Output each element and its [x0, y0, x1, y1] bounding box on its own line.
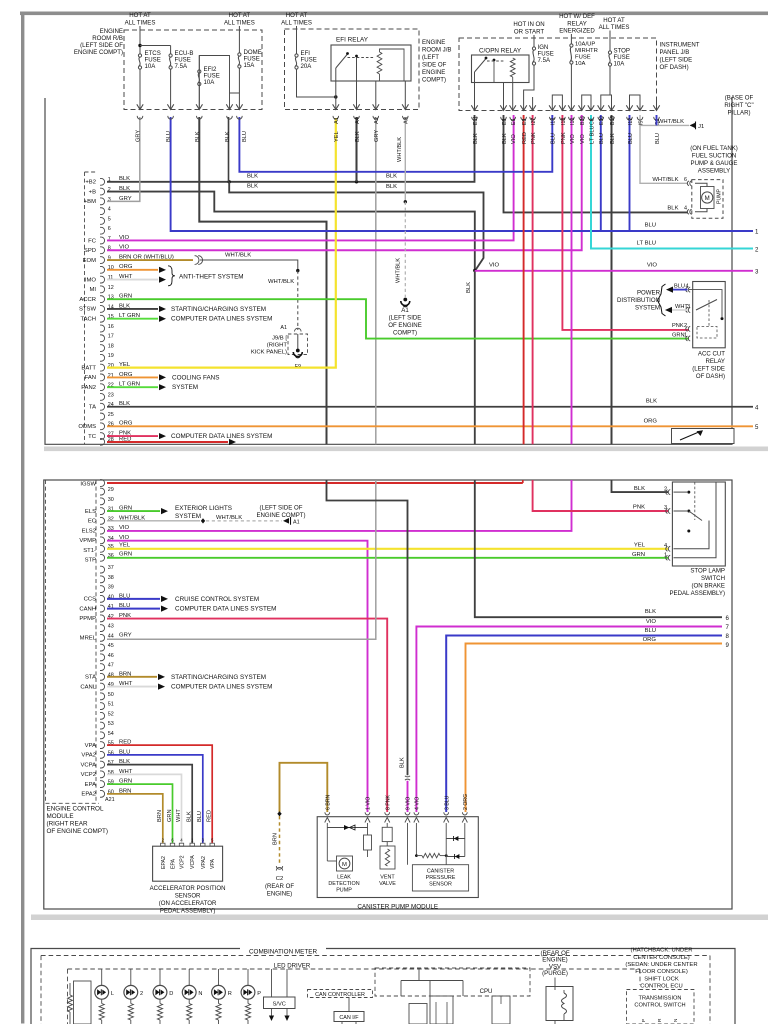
section separator band 2 — [31, 915, 768, 921]
LED indicator R — [218, 969, 220, 986]
svg-text:ENGINE): ENGINE) — [267, 891, 292, 898]
svg-text:ENGINE: ENGINE — [422, 69, 445, 76]
wire BLK pin14 STSW — [107, 308, 158, 310]
svg-text:CRUISE CONTROL SYSTEM: CRUISE CONTROL SYSTEM — [175, 596, 259, 603]
ECM pin 4 — [100, 208, 105, 215]
connector A1 arrow pin32 — [283, 518, 289, 524]
ECM pin 48 — [100, 673, 105, 680]
svg-text:ALL TIMES: ALL TIMES — [281, 19, 312, 26]
ACC cut relay box — [693, 282, 726, 348]
pump pin6 connector — [687, 181, 689, 186]
svg-text:C8: C8 — [589, 118, 595, 125]
canister module pin 4 VIO — [414, 812, 419, 815]
svg-text:ALL TIMES: ALL TIMES — [125, 19, 156, 26]
svg-text:BLK: BLK — [502, 133, 508, 144]
svg-text:EC: EC — [88, 519, 97, 525]
svg-text:20A: 20A — [301, 63, 313, 70]
svg-text:37: 37 — [108, 565, 114, 571]
svg-text:PPMP: PPMP — [79, 616, 96, 622]
svg-text:YEL: YEL — [119, 542, 131, 548]
svg-text:D: D — [169, 991, 173, 997]
sensor pin bump BRN — [161, 843, 165, 846]
svg-text:TRANSMISSION: TRANSMISSION — [639, 996, 682, 1002]
ECM pin 1 — [100, 178, 105, 185]
combination meter dashed box — [41, 955, 710, 957]
svg-text:CANISTER: CANISTER — [427, 868, 454, 874]
EFI relay internals — [335, 68, 337, 81]
wire BLU ECU-B fuse to edge 1 — [171, 117, 753, 231]
svg-text:PNK: PNK — [561, 132, 567, 144]
ground E9 inside J9/B — [296, 349, 300, 353]
svg-text:ORG: ORG — [643, 637, 657, 643]
ECM pin 49 — [100, 683, 105, 690]
svg-text:M: M — [705, 195, 710, 202]
svg-text:51: 51 — [108, 702, 114, 708]
svg-text:PNK: PNK — [633, 505, 645, 511]
svg-text:B26: B26 — [580, 116, 586, 125]
svg-text:WHT/BLK: WHT/BLK — [652, 177, 678, 183]
LED driver dashed box — [68, 968, 641, 970]
svg-text:(ON FUEL TANK): (ON FUEL TANK) — [690, 145, 738, 152]
svg-text:BLU: BLU — [674, 284, 685, 290]
svg-text:+BM: +BM — [84, 199, 96, 205]
svg-text:SIDE OF: SIDE OF — [422, 62, 447, 69]
svg-text:50: 50 — [108, 692, 114, 698]
CAN controller dashed box — [308, 990, 373, 998]
ECM pin 25 — [100, 413, 105, 420]
arrow power distribution 1 — [666, 287, 673, 293]
feed line EFI fuse — [296, 26, 298, 54]
svg-text:GRN: GRN — [119, 551, 132, 557]
wire WHT/BLK J/B to pump pin6 — [640, 115, 688, 183]
svg-text:M: M — [342, 862, 347, 868]
arrow pin28 red — [229, 439, 236, 445]
svg-text:VIO: VIO — [570, 134, 576, 144]
wire GRY EFI relay A2 down to section2 — [375, 117, 377, 444]
ECM pin IGSW — [100, 480, 105, 487]
svg-text:VIO: VIO — [511, 134, 517, 144]
svg-text:BLK: BLK — [225, 131, 231, 142]
svg-text:ENERGIZED: ENERGIZED — [559, 28, 595, 35]
instrument panel J/B dashed box — [459, 38, 657, 111]
J/B pin exit 629.5 — [626, 105, 632, 110]
brace power distribution — [658, 284, 666, 316]
J/B pin stub — [532, 97, 534, 111]
wire RED pin55 to accel sensor — [107, 745, 212, 843]
svg-text:23: 23 — [108, 392, 114, 398]
wire BLK to edge 6 — [475, 480, 722, 617]
feed branch ECU-B — [140, 45, 171, 47]
svg-text:A1: A1 — [293, 519, 300, 525]
feed line ETCS — [139, 26, 141, 54]
svg-text:WHT/BLK: WHT/BLK — [225, 252, 251, 258]
ECM pin 45 — [100, 644, 105, 651]
canister module internals: leak pump branch — [326, 823, 328, 861]
svg-text:VALVE: VALVE — [379, 881, 396, 887]
J/B pin exit 571.4 — [568, 105, 574, 110]
svg-text:VCPA: VCPA — [80, 762, 96, 768]
svg-text:GRY: GRY — [374, 130, 380, 142]
svg-text:1: 1 — [684, 333, 687, 339]
svg-text:(LEFT SIDE: (LEFT SIDE — [692, 365, 725, 372]
ECM pin 10 — [100, 266, 105, 273]
svg-text:C2: C2 — [276, 876, 284, 882]
J/B pin stub S2 — [656, 100, 658, 111]
svg-text:EXTERIOR LIGHTS: EXTERIOR LIGHTS — [175, 505, 232, 512]
wire BLK EFI2 fuse down-across — [199, 117, 326, 444]
wire BRN dashed to C2 — [279, 816, 281, 865]
svg-text:1 VIO: 1 VIO — [366, 797, 372, 810]
svg-text:I10: I10 — [570, 118, 576, 125]
fuse MIRHTR 10A — [570, 44, 573, 47]
canister pressure sensor box — [412, 865, 468, 891]
sensor pin bump WHT — [179, 843, 183, 846]
J/B pin exit 474.5 — [471, 105, 477, 110]
svg-text:CANL: CANL — [80, 684, 96, 690]
svg-text:MI: MI — [89, 287, 96, 293]
connector J1 arrow — [690, 123, 696, 129]
J/B output pin 356.5 — [353, 104, 359, 109]
svg-text:8 PNK: 8 PNK — [385, 794, 391, 810]
wire PNK pin42 to canister module pin8 — [107, 619, 387, 812]
svg-text:BLK: BLK — [610, 133, 616, 144]
ECM pin 16 — [100, 325, 105, 332]
svg-text:7.5A: 7.5A — [175, 63, 188, 70]
wire BLU pin40 CCS — [107, 598, 160, 600]
svg-text:25: 25 — [108, 412, 114, 418]
svg-text:WHT/BLK: WHT/BLK — [397, 137, 403, 162]
svg-text:EPA: EPA — [171, 858, 177, 869]
svg-text:BLK: BLK — [195, 131, 201, 142]
arrow starting charging 2 — [158, 674, 165, 680]
SVC box — [271, 969, 273, 997]
svg-text:7.5A: 7.5A — [538, 57, 551, 64]
svg-text:(RIGHT REAR: (RIGHT REAR — [47, 821, 88, 828]
wire ORG pin10 — [107, 269, 158, 271]
transmission control switch dashed box — [627, 990, 695, 1024]
svg-text:CAN I/F: CAN I/F — [339, 1015, 359, 1021]
wire BLK fusebox DOME2 down to pin1 bus — [228, 117, 230, 182]
svg-text:PUMP & GAUGE: PUMP & GAUGE — [691, 160, 738, 167]
svg-text:ENGINE: ENGINE — [422, 39, 445, 46]
svg-text:+B: +B — [89, 189, 96, 195]
svg-text:BLK: BLK — [355, 131, 361, 142]
meter resistor left — [69, 983, 71, 995]
section 2 frame — [44, 480, 732, 909]
svg-text:SENSOR: SENSOR — [175, 893, 201, 900]
ECM pin 21 — [100, 374, 105, 381]
svg-text:ELS2: ELS2 — [82, 528, 96, 534]
svg-text:HOT IN ON: HOT IN ON — [513, 21, 544, 28]
svg-text:EFI RELAY: EFI RELAY — [336, 37, 369, 44]
svg-text:E11: E11 — [473, 116, 479, 125]
C/OPN pin c down — [512, 83, 514, 111]
svg-text:(SEDAN: UNDER CENTER: (SEDAN: UNDER CENTER — [625, 962, 697, 968]
EFI fuse wire to relay — [297, 69, 336, 97]
svg-text:BLU: BLU — [166, 131, 172, 142]
junction pin1/EFI relay A4 — [355, 180, 358, 183]
svg-text:BLU: BLU — [628, 133, 634, 144]
svg-text:PRESSURE: PRESSURE — [426, 875, 456, 881]
svg-text:ENGINE COMPT): ENGINE COMPT) — [256, 512, 305, 519]
svg-text:3 BLU: 3 BLU — [444, 795, 450, 810]
svg-text:ST1-: ST1- — [83, 548, 96, 554]
relay pin1 conn — [686, 336, 688, 341]
svg-text:VPA2: VPA2 — [81, 753, 96, 759]
svg-text:(LEFT: (LEFT — [422, 54, 439, 61]
svg-text:EPA2: EPA2 — [81, 792, 96, 798]
svg-text:CENTER CONSOLE): CENTER CONSOLE) — [633, 955, 690, 961]
svg-text:COMPT): COMPT) — [422, 77, 446, 84]
svg-text:HOT AT: HOT AT — [603, 17, 625, 24]
engine room J/B dashed box — [285, 29, 420, 110]
bracket STOP outputs — [601, 95, 612, 111]
svg-text:RED: RED — [207, 810, 213, 822]
svg-text:E6: E6 — [511, 119, 517, 125]
relay pin A2 down — [375, 81, 377, 110]
ECM connector section1 dashed outline — [84, 172, 86, 444]
svg-text:PEDAL ASSEMBLY): PEDAL ASSEMBLY) — [669, 590, 725, 597]
svg-text:BLK: BLK — [247, 173, 258, 179]
svg-text:SYSTEM: SYSTEM — [635, 304, 660, 311]
wire PNK J/B down to section2 — [532, 115, 534, 444]
svg-text:(ON ACCELERATOR: (ON ACCELERATOR — [159, 900, 217, 907]
ground A1 engine compt — [403, 298, 407, 302]
wire BLK down to section2 — [474, 271, 476, 445]
svg-text:WHT/BLK: WHT/BLK — [268, 279, 294, 285]
IGN fuse output — [524, 65, 534, 111]
svg-text:ENGINE CONTROL: ENGINE CONTROL — [47, 806, 104, 813]
connector A1 arc J9/B — [295, 328, 302, 331]
svg-text:INSTRUMENT: INSTRUMENT — [660, 42, 700, 49]
relay pin3 conn — [686, 308, 688, 313]
ECM pin 42 — [100, 615, 105, 622]
shield junction pin9 — [296, 269, 299, 272]
svg-text:LEAK: LEAK — [337, 875, 351, 881]
ECM pin 27 — [100, 433, 105, 440]
relay pin A4 down — [356, 81, 358, 110]
svg-text:CCS: CCS — [84, 597, 96, 603]
ECM pin 38 — [100, 576, 105, 583]
vent valve outline — [380, 846, 395, 869]
svg-text:BLK: BLK — [667, 206, 678, 212]
svg-text:RELAY: RELAY — [567, 20, 587, 27]
svg-text:FAN2: FAN2 — [81, 385, 96, 391]
ECM pin 6 — [100, 227, 105, 234]
J/B pin exit 512.7 — [510, 105, 516, 110]
DOME output bracket — [230, 92, 240, 94]
ECM pin 50 — [100, 693, 105, 700]
svg-text:RED: RED — [522, 132, 528, 144]
shield dashed to ground A1 — [404, 202, 406, 297]
svg-text:STP: STP — [85, 558, 97, 564]
svg-text:ODMS: ODMS — [78, 424, 96, 430]
svg-text:BLK: BLK — [187, 811, 193, 822]
ECM pin 9 — [100, 257, 105, 264]
svg-text:ROOM J/B: ROOM J/B — [422, 47, 451, 54]
section 3 frame — [31, 949, 735, 1024]
wire WHT/BLK branch to J1 — [640, 124, 689, 126]
svg-text:4: 4 — [686, 284, 689, 290]
svg-text:SYSTEM: SYSTEM — [175, 513, 201, 520]
bracket outputs 4 — [630, 95, 641, 111]
connector C2 arcs — [276, 866, 282, 869]
canister pump module box — [317, 817, 478, 898]
wire GRN pin59 to accel sensor — [107, 784, 173, 843]
pump pin4 connector — [687, 209, 689, 214]
junction pin1/fusebox BLK — [228, 180, 231, 183]
wire BLK pin57 to accel sensor — [107, 765, 192, 843]
svg-text:BLK: BLK — [634, 486, 645, 492]
ECM pin 35 — [100, 545, 105, 552]
ECM pin 54 — [100, 732, 105, 739]
feed STOP fuse — [609, 31, 611, 52]
svg-text:5: 5 — [108, 216, 111, 222]
svg-text:BLU: BLU — [197, 811, 203, 822]
svg-text:CANH: CANH — [79, 606, 96, 612]
ECM pin 20 — [100, 364, 105, 371]
J/B pin exit 640 — [637, 105, 643, 110]
svg-text:ROOM R/B: ROOM R/B — [92, 35, 123, 42]
svg-text:COOLING FANS: COOLING FANS — [172, 374, 219, 381]
svg-text:I12: I12 — [628, 118, 634, 125]
wire ORG pin26 ODMS to edge 5 — [107, 425, 753, 427]
svg-text:GRN: GRN — [672, 333, 685, 339]
LED indicator N — [188, 969, 190, 986]
ECM pin 31 — [100, 508, 105, 515]
svg-text:VENT: VENT — [380, 875, 395, 881]
svg-text:ORG: ORG — [644, 418, 658, 424]
CPU internal bus — [401, 980, 463, 982]
svg-text:ACCR: ACCR — [79, 297, 96, 303]
page top gray border bar — [20, 12, 768, 16]
svg-text:A1: A1 — [401, 307, 409, 314]
svg-text:VCP2: VCP2 — [180, 855, 186, 869]
section separator band 1 — [44, 447, 768, 452]
svg-text:30: 30 — [108, 497, 114, 503]
svg-text:BRN: BRN — [157, 810, 163, 822]
svg-text:OF DASH): OF DASH) — [696, 373, 725, 380]
wire WHT/BLK EFI relay A3 — [404, 117, 406, 202]
EFI relay U1 box — [331, 45, 411, 81]
canister module pin 1 VIO — [365, 812, 370, 815]
svg-text:PEDAL ASSEMBLY): PEDAL ASSEMBLY) — [160, 908, 216, 915]
feed line DOME — [238, 26, 240, 53]
brace anti-theft — [168, 266, 175, 286]
svg-text:E8: E8 — [502, 119, 508, 125]
svg-text:GRY: GRY — [119, 632, 132, 638]
wire WHT/BLK pin9 shielded run — [200, 260, 298, 271]
wire PNK pin27 TC — [107, 435, 158, 437]
svg-text:FAN: FAN — [85, 375, 96, 381]
relay pin2 conn — [686, 327, 688, 332]
svg-text:SHIFT LOCK: SHIFT LOCK — [644, 976, 679, 982]
sensor pin bump RED — [210, 843, 214, 846]
relay pin A1 down — [335, 81, 337, 110]
svg-text:VIO: VIO — [489, 263, 500, 269]
shield diamond pin32 — [201, 518, 205, 523]
svg-text:54: 54 — [108, 731, 114, 737]
svg-text:ENGINE COMPT): ENGINE COMPT) — [74, 49, 123, 56]
svg-text:COMPUTER DATA LINES SYSTEM: COMPUTER DATA LINES SYSTEM — [175, 606, 276, 613]
svg-text:I5: I5 — [638, 121, 644, 125]
svg-text:2: 2 — [684, 323, 687, 329]
svg-text:6: 6 — [684, 177, 687, 183]
wire BRN pin48 STA — [107, 676, 157, 678]
svg-text:BLU: BLU — [242, 131, 248, 142]
wire VIO pin8 SPD from J/B — [107, 115, 582, 250]
svg-text:SWITCH: SWITCH — [701, 575, 725, 582]
svg-text:(BASE OF: (BASE OF — [725, 95, 754, 102]
valve bowtie — [344, 825, 350, 830]
svg-text:47: 47 — [108, 663, 114, 669]
svg-text:N: N — [198, 991, 202, 997]
wire RED pin28 — [107, 441, 228, 443]
wire BLU relay pin4 — [673, 289, 688, 291]
fuse EFI2 10A — [198, 70, 201, 73]
svg-text:6 BRN: 6 BRN — [326, 794, 332, 810]
canister pressure sensor network — [407, 823, 409, 865]
wire BLU canister pin3 to edge 8 — [446, 636, 722, 813]
svg-text:ALL TIMES: ALL TIMES — [224, 19, 255, 26]
wire GRN pin36 STP to stop lamp switch pin1 — [107, 557, 668, 559]
MIRHTR fuse output — [570, 64, 572, 111]
svg-text:GRY: GRY — [136, 130, 142, 142]
ECM pin 23 — [100, 394, 105, 401]
svg-text:2 ORG: 2 ORG — [463, 794, 469, 810]
ECM pin 59 — [100, 781, 105, 788]
svg-text:E30: E30 — [599, 116, 605, 125]
wire WHT pin11 IMO — [107, 279, 158, 281]
svg-text:RIGHT "C": RIGHT "C" — [724, 102, 753, 109]
svg-text:HOT AT: HOT AT — [229, 12, 251, 19]
ECM pin 3 — [100, 198, 105, 205]
canister module pin 9 VIO — [405, 812, 410, 815]
svg-text:BATT: BATT — [81, 365, 96, 371]
wire BRN canister pin6 loop — [280, 763, 328, 812]
R/B output pin at 170.6 — [167, 104, 173, 109]
svg-text:J9/B [: J9/B [ — [272, 336, 287, 342]
svg-text:29: 29 — [108, 487, 114, 493]
ECM pin 57 — [100, 761, 105, 768]
J/B output pin 335.8 — [333, 104, 339, 109]
wire VIO pin34 VPMP to canister module — [107, 541, 368, 812]
engine room R/B dashed box — [124, 30, 262, 110]
svg-text:YEL: YEL — [334, 131, 340, 142]
svg-text:HOT AT: HOT AT — [286, 12, 308, 19]
svg-text:VCPA: VCPA — [190, 855, 196, 869]
svg-text:LT BLU: LT BLU — [589, 125, 595, 144]
canister module pin 8 PNK — [385, 812, 390, 815]
wire YEL pin35 to stop lamp switch pin4 — [107, 548, 668, 550]
svg-text:COMPT): COMPT) — [393, 330, 417, 337]
svg-text:COMPUTER DATA LINES SYSTEM: COMPUTER DATA LINES SYSTEM — [171, 684, 272, 691]
J/B pin exit 562.4 — [559, 105, 565, 110]
wire BLK from EFI2 fuse to canister connector — [327, 480, 408, 775]
svg-text:VIO: VIO — [647, 263, 658, 269]
svg-text:FLOOR CONSOLE): FLOOR CONSOLE) — [635, 969, 688, 975]
svg-text:VCP2: VCP2 — [81, 772, 96, 778]
ECM pin 44 — [100, 634, 105, 641]
junction EFI fuse/relay A1 — [334, 95, 337, 98]
wire inside J9/B — [297, 334, 299, 349]
svg-text:MODULE: MODULE — [47, 813, 74, 820]
svg-text:WHT: WHT — [176, 809, 182, 822]
svg-text:SPD: SPD — [84, 248, 96, 254]
ECM pin 32 — [100, 517, 105, 524]
svg-text:ACCELERATOR POSITION: ACCELERATOR POSITION — [150, 885, 226, 892]
ECM pin 55 — [100, 742, 105, 749]
